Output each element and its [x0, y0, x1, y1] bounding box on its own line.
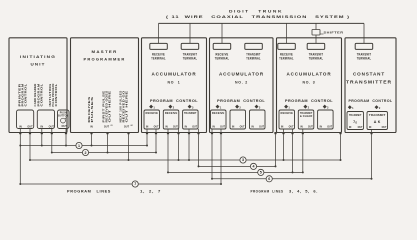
- svg-text:6: 6: [268, 177, 270, 181]
- unit box: master programmer: [71, 38, 139, 133]
- svg-text:OUT: OUT: [124, 125, 130, 128]
- svg-text:INITIATING: INITIATING: [20, 54, 56, 59]
- wire: ct control 2 IN to line 6: [371, 129, 373, 179]
- program control box 3: blank: [250, 110, 266, 129]
- svg-text:OUT: OUT: [220, 127, 225, 129]
- wire: acc3 control 1 OUT to line 5: [292, 129, 294, 172]
- ct program control marker #1: [348, 105, 352, 109]
- svg-text:OUT: OUT: [49, 125, 55, 128]
- receive one terminal: [150, 43, 168, 49]
- svg-text:TRANSMIT: TRANSMIT: [184, 112, 197, 115]
- svg-text:CONSTANT: CONSTANT: [353, 71, 385, 76]
- ct program control box 2: [367, 112, 388, 130]
- program line 3: [30, 159, 240, 161]
- wire: card reader OUT to line 2: [51, 129, 53, 153]
- wire: acc3 left terminal to line 4: [275, 133, 277, 167]
- svg-text:OUT: OUT: [27, 125, 33, 128]
- wire: trunk drop to constant transmitter terminal: [363, 23, 365, 43]
- svg-text:TERMINAL: TERMINAL: [151, 57, 166, 61]
- program control marker #1: [149, 105, 153, 109]
- svg-text:TERMINAL: TERMINAL: [279, 57, 294, 61]
- svg-text:TERMINAL: TERMINAL: [309, 57, 324, 61]
- svg-text:IN: IN: [19, 125, 22, 128]
- svg-text:IN: IN: [185, 127, 188, 129]
- wire: push button OUT to line 1: [65, 129, 67, 146]
- program control box 3: TRANSMIT: [183, 110, 199, 129]
- transmit three terminal: [307, 43, 325, 49]
- svg-text:TRANSMIT: TRANSMIT: [369, 114, 386, 117]
- program control box 1: RECEIVE: [144, 110, 160, 129]
- wire: acc2 control 1 OUT to line 7: [220, 129, 222, 184]
- program control marker #1: [216, 105, 220, 109]
- svg-text:1, 2, 7: 1, 2, 7: [140, 190, 161, 194]
- transmit one terminal: [181, 43, 199, 49]
- program line 5: [168, 171, 258, 173]
- unit box: accumulator no. 1: [142, 38, 207, 133]
- wire: acc1 control 1 OUT to line 2: [155, 129, 157, 153]
- program control box 2: TRANSMIT &amp; CLEAR: [298, 110, 314, 129]
- svg-text:7O: 7O: [353, 120, 357, 124]
- shifter: [312, 30, 320, 36]
- wire: initiating unit printer IN to line 7: [19, 129, 21, 184]
- wire: digit trunk bus: [159, 22, 365, 24]
- program control marker #3: [323, 105, 327, 109]
- svg-text:RECEIVE: RECEIVE: [165, 112, 178, 115]
- svg-text:4: 4: [253, 165, 255, 169]
- svg-text:( 11 WIRE COAXIAL TRANSMI: ( 11 WIRE COAXIAL TRANSMISSION SYSTEM ): [166, 15, 350, 19]
- svg-text:OUT HERE: OUT HERE: [108, 90, 112, 122]
- ct program control box 1: [347, 112, 364, 130]
- svg-text:PROGRAM CONTROL: PROGRAM CONTROL: [285, 99, 333, 103]
- unit box: initiating unit: [9, 38, 67, 133]
- card reader program control box: [37, 110, 54, 129]
- svg-text:PULSES: PULSES: [90, 96, 94, 122]
- svg-text:IN: IN: [146, 127, 149, 129]
- wire: acc1 control 2 OUT to line 3: [178, 129, 180, 160]
- program control box 3: blank: [318, 110, 334, 129]
- svg-text:ACCUMULATOR: ACCUMULATOR: [287, 71, 332, 76]
- program control box 2: blank: [230, 110, 246, 129]
- wire: master programmer OUT 2 to line 3: [128, 133, 130, 161]
- svg-text:OUT: OUT: [327, 127, 332, 129]
- svg-text:BUTTON: BUTTON: [58, 115, 68, 117]
- svg-text:2: 2: [85, 151, 87, 155]
- wire: acc1 control 2 IN to line 5: [167, 129, 169, 172]
- svg-text:#1: #1: [110, 125, 112, 127]
- svg-text:IN: IN: [165, 127, 168, 129]
- svg-text:CONTROL: CONTROL: [24, 83, 28, 106]
- ct program control marker #2: [375, 105, 379, 109]
- wire: shifter to accumulator 3 transmit terminal: [315, 35, 317, 43]
- program control marker #3: [255, 105, 259, 109]
- svg-text:OUT: OUT: [382, 127, 387, 129]
- wire: acc3 control 1 IN to line 3: [283, 129, 285, 160]
- svg-text:5: 5: [260, 171, 262, 175]
- svg-text:OUT: OUT: [62, 125, 68, 128]
- svg-text:#2: #2: [130, 125, 132, 127]
- svg-text:IN: IN: [281, 127, 284, 129]
- wire: trunk drop to accumulator 2 receive terminal: [221, 23, 223, 43]
- wire: trunk drop to accumulator 1 receive terminal: [158, 23, 160, 43]
- shifter label pointer: [320, 33, 324, 35]
- transmit ct terminal: [355, 43, 373, 49]
- wire: acc2 control 1 IN to line 6: [211, 129, 213, 179]
- svg-text:TERMINAL: TERMINAL: [215, 57, 230, 61]
- wire: trunk drop to accumulator 1 transmit terminal: [189, 23, 191, 43]
- svg-text:IN: IN: [300, 127, 303, 129]
- svg-text:PROGRAMMER: PROGRAMMER: [84, 56, 126, 61]
- svg-text:IN: IN: [252, 127, 255, 129]
- svg-text:NO 1: NO 1: [168, 81, 181, 85]
- program line 4: [199, 165, 251, 167]
- svg-text:IN: IN: [41, 125, 44, 128]
- unit box: accumulator no. 3: [277, 38, 342, 133]
- svg-text:IN: IN: [213, 127, 216, 129]
- svg-text:OUT: OUT: [173, 127, 178, 129]
- svg-text:PUSH: PUSH: [60, 113, 67, 115]
- svg-text:CONTROL: CONTROL: [40, 83, 44, 106]
- wire: acc3 control 2 IN to line 5: [302, 129, 304, 172]
- program control box 2: RECEIVE: [163, 110, 179, 129]
- svg-text:IN: IN: [349, 127, 352, 129]
- svg-text:SHIFTER: SHIFTER: [324, 30, 345, 34]
- svg-text:OUT: OUT: [358, 127, 363, 129]
- svg-text:CONTROL: CONTROL: [54, 83, 58, 106]
- program line 2: [52, 152, 83, 154]
- wire: acc1 control 3 IN to line 3: [188, 129, 190, 160]
- program line 1: [20, 145, 76, 147]
- receive two terminal: [213, 43, 231, 49]
- unit box: constant transmitter: [345, 38, 396, 133]
- svg-text:3: 3: [242, 158, 244, 162]
- push button symbol: [61, 118, 66, 123]
- svg-text:& CLEAR: & CLEAR: [300, 115, 313, 118]
- svg-text:DIGIT TRUNK: DIGIT TRUNK: [229, 10, 283, 14]
- unit box: accumulator no. 2: [210, 38, 274, 133]
- svg-text:OUT HERE: OUT HERE: [125, 90, 129, 122]
- svg-text:PROGRAM CONTROL: PROGRAM CONTROL: [150, 99, 198, 103]
- svg-text:Δ K: Δ K: [374, 120, 381, 124]
- svg-text:ACCUMULATOR: ACCUMULATOR: [219, 71, 264, 76]
- svg-text:IN: IN: [90, 125, 93, 128]
- svg-text:ACCUMULATOR: ACCUMULATOR: [152, 71, 197, 76]
- svg-text:TERMINAL: TERMINAL: [357, 57, 372, 61]
- program control box 1: RECEIVE: [211, 110, 227, 129]
- program control marker #2: [168, 105, 172, 109]
- receive three terminal: [278, 43, 296, 49]
- svg-text:3, 4, 5, 6.: 3, 4, 5, 6.: [289, 190, 318, 194]
- svg-text:7: 7: [134, 182, 136, 186]
- svg-text:RECEIVE: RECEIVE: [146, 112, 159, 115]
- svg-text:OUT: OUT: [259, 127, 264, 129]
- svg-text:1: 1: [78, 144, 80, 148]
- svg-text:PROGRAM CONTROL: PROGRAM CONTROL: [217, 99, 265, 103]
- svg-text:TERMINAL: TERMINAL: [183, 57, 198, 61]
- wire: initiating unit printer OUT to line 3: [29, 129, 31, 160]
- wire: card reader IN to line 1: [41, 129, 43, 146]
- wire: acc3 right terminal to line 3: [340, 133, 342, 161]
- svg-text:PROGRAM CONTROL: PROGRAM CONTROL: [349, 99, 393, 103]
- svg-text:TRANSMITTER: TRANSMITTER: [346, 80, 392, 85]
- svg-text:OUT: OUT: [308, 127, 313, 129]
- svg-text:NO. 3: NO. 3: [303, 81, 316, 85]
- svg-text:UNIT: UNIT: [31, 61, 46, 66]
- program line 7: [20, 183, 132, 185]
- svg-text:NO. 2: NO. 2: [235, 81, 248, 85]
- svg-text:IN: IN: [369, 127, 372, 129]
- svg-text:IN: IN: [320, 127, 323, 129]
- svg-text:OUT: OUT: [192, 127, 197, 129]
- program control marker #2: [235, 105, 239, 109]
- svg-text:OUT: OUT: [289, 127, 294, 129]
- wire: trunk drop to shifter: [315, 23, 317, 29]
- push button box: [58, 110, 70, 129]
- svg-text:RECEIVE: RECEIVE: [212, 112, 225, 115]
- svg-text:OUT: OUT: [154, 127, 159, 129]
- svg-text:PROGRAM LINES: PROGRAM LINES: [67, 190, 111, 194]
- svg-text:TRANSMIT: TRANSMIT: [349, 114, 362, 117]
- svg-text:OUT: OUT: [104, 125, 110, 128]
- program control box 1: RECEIVE: [279, 110, 295, 129]
- wire: trunk drop to accumulator 3 receive terminal: [286, 23, 288, 43]
- wire: master programmer OUT 1 to line 2: [107, 133, 109, 153]
- wire: master programmer IN to line 1: [91, 133, 93, 146]
- transmit two terminal: [245, 43, 262, 49]
- svg-text:MASTER: MASTER: [92, 49, 118, 54]
- svg-text:RECEIVE: RECEIVE: [281, 112, 294, 115]
- svg-text:IN: IN: [232, 127, 235, 129]
- printer program control box: [17, 110, 34, 129]
- program control marker #2: [303, 105, 307, 109]
- program line 6: [212, 178, 266, 180]
- program control marker #1: [284, 105, 288, 109]
- wire: acc1 control 3 OUT to line 4: [198, 129, 200, 166]
- svg-text:PROGRAM LINES: PROGRAM LINES: [251, 190, 284, 194]
- wire: acc1 control 1 IN to line 1: [146, 129, 148, 146]
- svg-text:OUT: OUT: [240, 127, 245, 129]
- program control marker #3: [188, 105, 192, 109]
- svg-text:TERMINAL: TERMINAL: [246, 57, 261, 61]
